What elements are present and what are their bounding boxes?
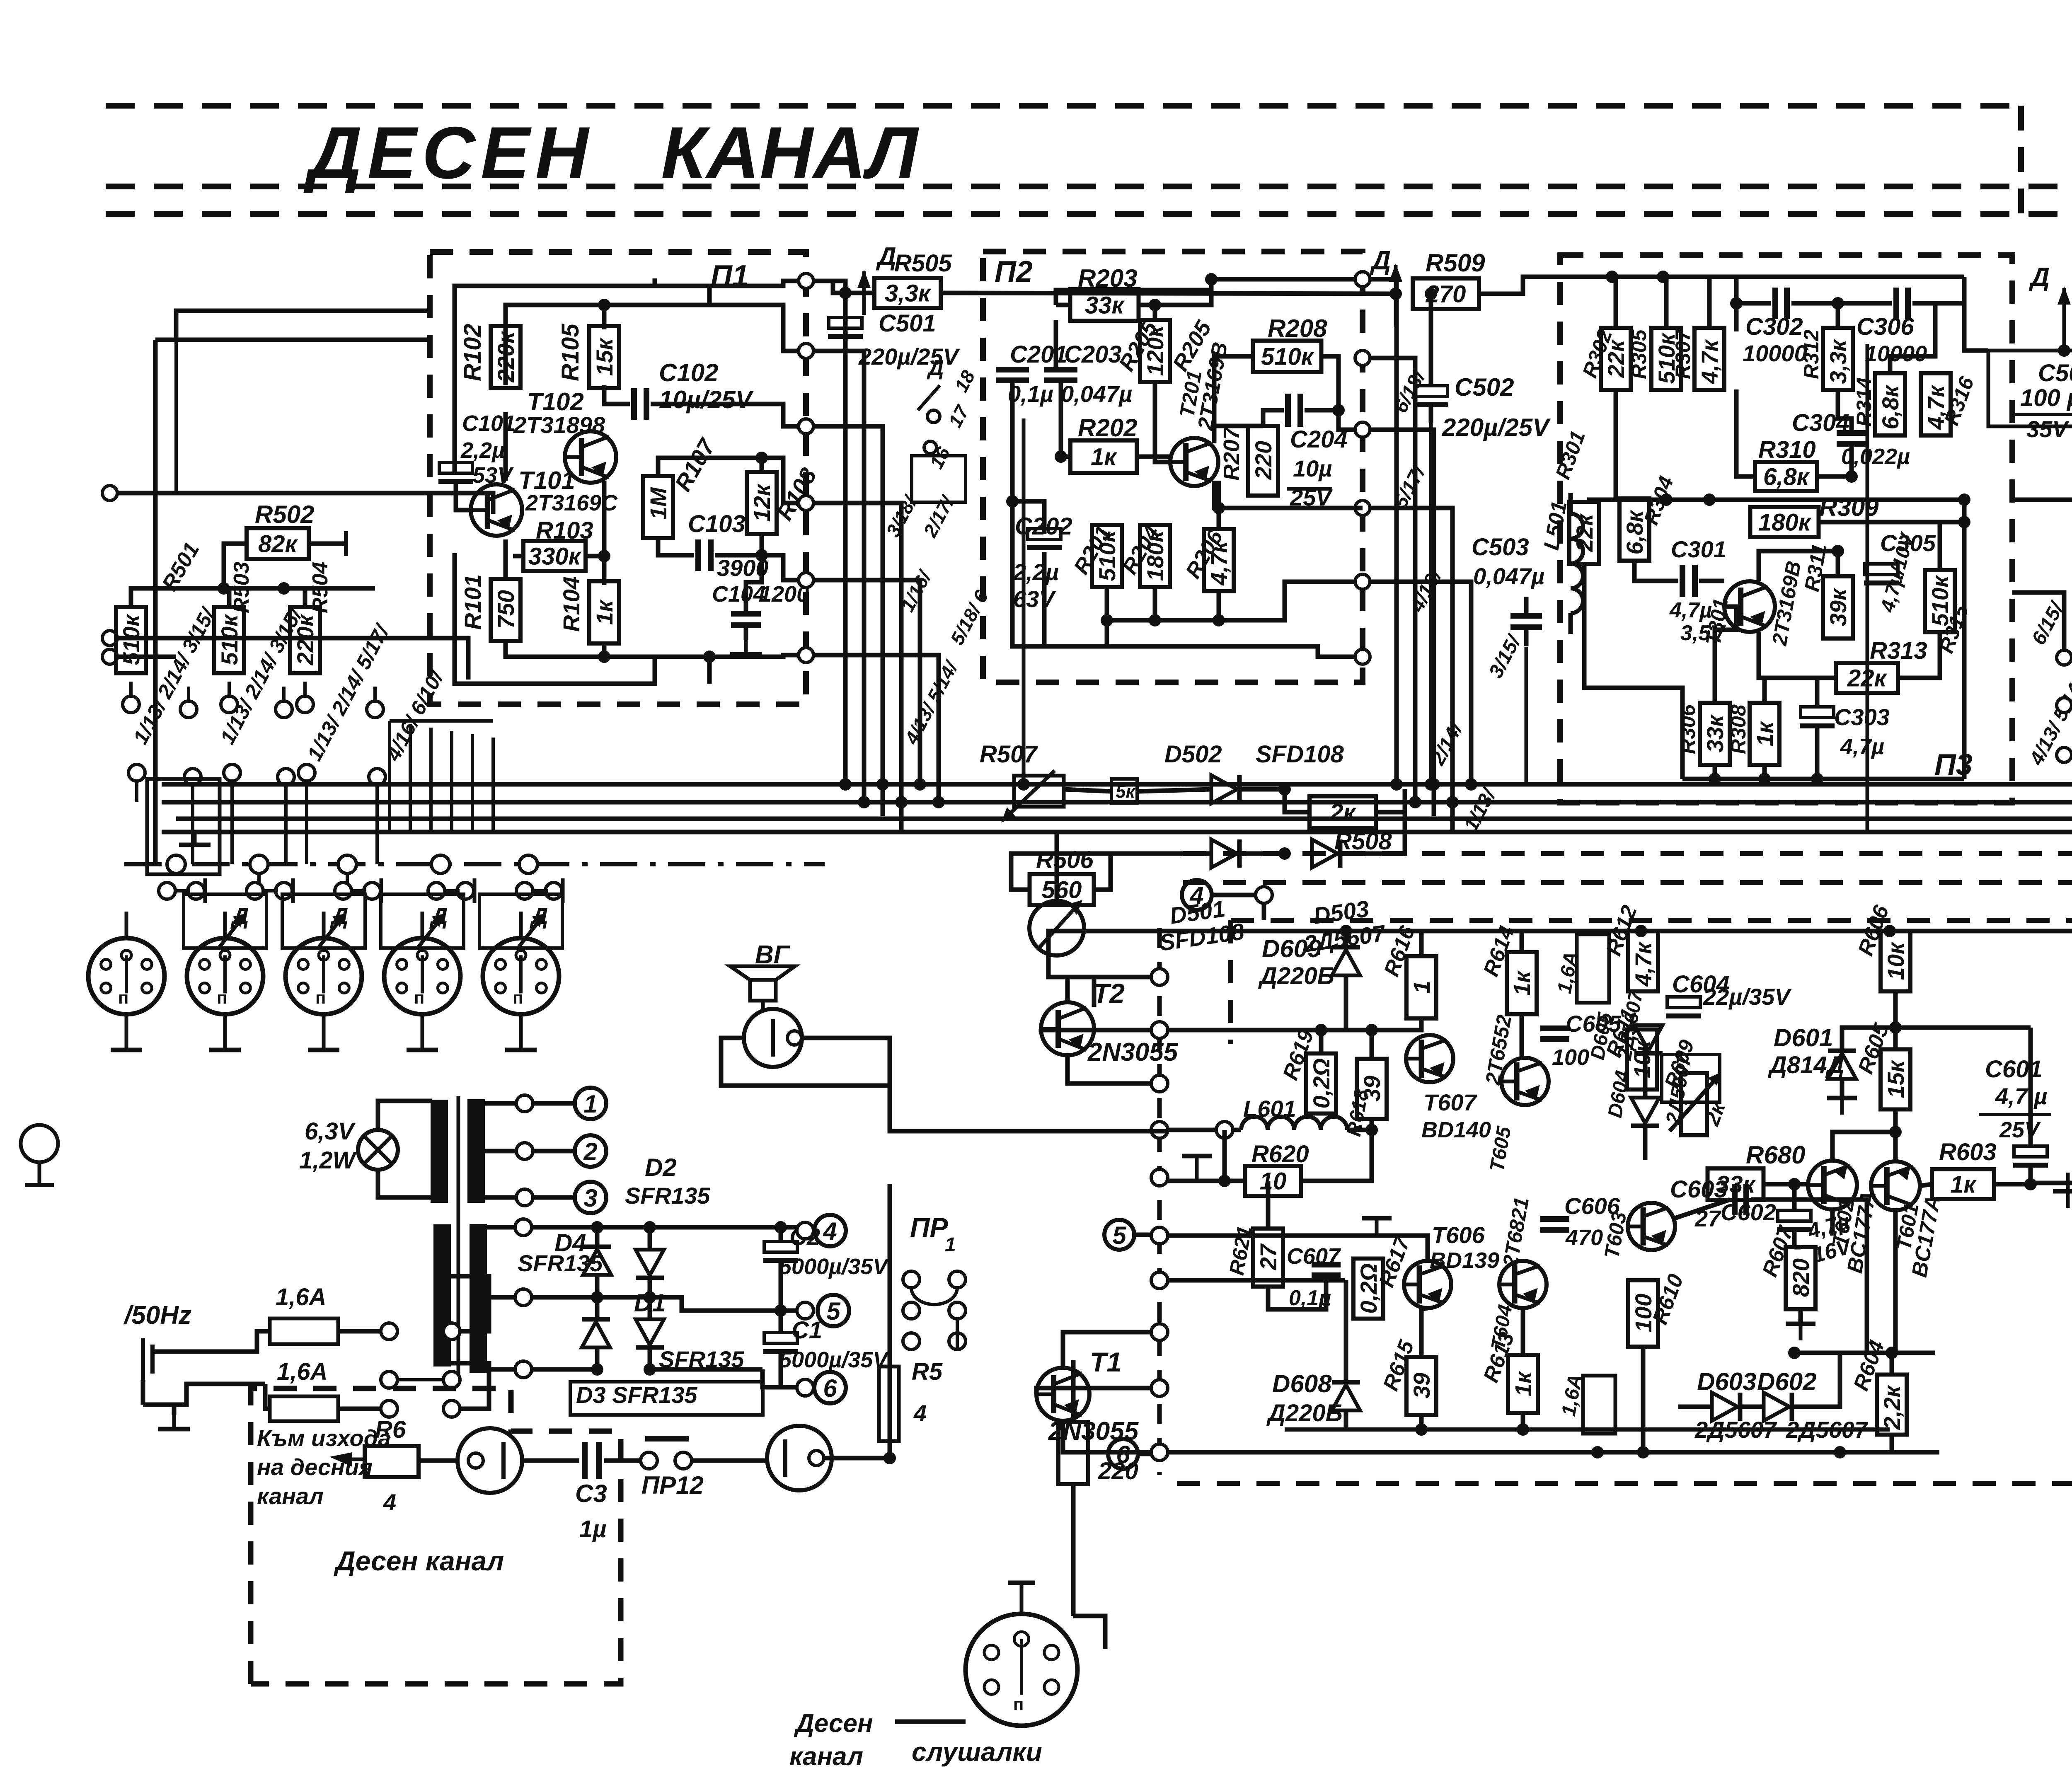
svg-text:ПР: ПР <box>910 1212 948 1243</box>
transformer core line <box>457 1096 460 1376</box>
wire T2 base <box>1041 1029 1151 1030</box>
resistor R621 27 <box>1253 1229 1283 1287</box>
svg-text:R503: R503 <box>230 562 254 613</box>
circled 6 terminal <box>1108 1439 1138 1469</box>
wire left vertical bus <box>155 338 430 342</box>
svg-text:R203: R203 <box>1078 264 1137 292</box>
resistor R612 4,7к <box>1628 931 1658 992</box>
fuse 1,6А upper <box>1577 934 1609 1003</box>
svg-text:D603: D603 <box>1697 1368 1756 1396</box>
DIN connector 2 <box>187 938 263 1014</box>
svg-text:15к: 15к <box>591 337 617 376</box>
wire left speaker feed <box>879 1102 883 1106</box>
resistor R208 510к <box>1253 341 1322 372</box>
svg-text:Д220Б: Д220Б <box>1258 963 1334 989</box>
svg-text:5000µ/35V: 5000µ/35V <box>779 1254 889 1279</box>
fuse 1,6А lower <box>1583 1376 1615 1434</box>
resistor R304 6,8к <box>1619 498 1649 561</box>
switch ПР12 <box>645 1436 689 1441</box>
svg-text:4,7к: 4,7к <box>1697 339 1723 385</box>
junction circles on selector line <box>167 855 185 873</box>
wire collectors to node <box>1832 1132 1895 1161</box>
svg-text:R506: R506 <box>1036 847 1094 873</box>
svg-text:4: 4 <box>1189 882 1203 909</box>
svg-text:4,7µ: 4,7µ <box>1840 734 1884 759</box>
wire П1 to right terminals <box>655 281 806 286</box>
svg-text:Т606: Т606 <box>1432 1222 1485 1248</box>
capacitor C2 5000µ/35V <box>764 1241 797 1252</box>
svg-text:1к: 1к <box>1509 970 1535 996</box>
DIN connector boxes <box>184 894 266 948</box>
svg-text:C301: C301 <box>1671 536 1726 562</box>
svg-text:С3: С3 <box>575 1480 607 1507</box>
svg-text:Д: Д <box>2028 262 2050 292</box>
ground mains <box>172 1415 176 1429</box>
capacitor C502 220µ/25V <box>1414 386 1447 397</box>
svg-text:39: 39 <box>1409 1373 1435 1398</box>
svg-text:D602: D602 <box>1757 1368 1816 1396</box>
selector contacts row 2 <box>128 764 145 781</box>
svg-text:5к: 5к <box>1116 781 1136 802</box>
svg-text:R307: R307 <box>1671 329 1694 379</box>
svg-text:C504: C504 <box>2038 360 2072 387</box>
svg-text:D601: D601 <box>1774 1024 1833 1052</box>
wire П1 left entry <box>176 311 220 340</box>
svg-text:R310: R310 <box>1758 436 1816 463</box>
wire long bus 3 <box>176 817 2072 821</box>
resistor R311 39к <box>1823 576 1853 639</box>
module П3 dashed box <box>1560 255 2012 803</box>
svg-text:R680: R680 <box>1746 1141 1805 1169</box>
transistor T201 2T3169В <box>1170 438 1218 486</box>
svg-text:1М: 1М <box>645 487 671 520</box>
transistor T607 BD140 <box>1406 1035 1453 1082</box>
svg-text:п: п <box>1013 1694 1024 1714</box>
resistor R301 22к <box>1569 502 1599 564</box>
wire C503 down <box>1525 647 1528 784</box>
resistor R102 220к <box>491 326 520 388</box>
svg-text:C104: C104 <box>712 582 765 607</box>
resistor R617 0,2Ω <box>1353 1259 1383 1319</box>
svg-text:1,6А: 1,6А <box>277 1358 328 1385</box>
svg-text:П2: П2 <box>995 255 1033 288</box>
svg-text:510к: 510к <box>216 614 242 665</box>
resistor 220 vertical <box>1058 1422 1088 1484</box>
ground C601 <box>2053 1189 2072 1194</box>
secondary taps to 1 2 3 <box>484 1101 517 1106</box>
resistor R207 220 <box>1248 426 1278 496</box>
svg-text:R508: R508 <box>1334 828 1392 855</box>
svg-text:0,2Ω: 0,2Ω <box>1356 1263 1382 1314</box>
capacitor C303 4,7µ <box>1801 707 1834 718</box>
DIN connector 3 <box>286 938 362 1014</box>
frame dashed top border <box>106 103 2018 109</box>
right-channel dashed box <box>251 1388 621 1684</box>
svg-text:2N3055: 2N3055 <box>1087 1038 1179 1067</box>
module П1 inner box <box>455 278 655 472</box>
module П1 dashed box <box>430 252 806 704</box>
svg-text:D3 SFR135: D3 SFR135 <box>576 1382 697 1408</box>
resistor R619 0,2Ω <box>1306 1054 1336 1114</box>
wire top left to П1 <box>220 309 430 313</box>
svg-text:1к: 1к <box>1091 443 1117 470</box>
svg-text:п: п <box>513 988 523 1007</box>
svg-text:п: п <box>315 988 326 1007</box>
svg-text:Т607: Т607 <box>1423 1089 1477 1115</box>
svg-text:5: 5 <box>826 1297 841 1325</box>
svg-text:D2: D2 <box>645 1154 677 1181</box>
svg-text:Д814Д: Д814Д <box>1767 1052 1844 1079</box>
wire bottom bus П3 <box>1682 777 1964 781</box>
selector column wires <box>191 785 194 864</box>
svg-text:12к: 12к <box>749 483 775 522</box>
svg-text:R101: R101 <box>460 574 486 630</box>
resistor R316 4,7к <box>1921 373 1951 435</box>
wire amp mid <box>1167 1236 1428 1261</box>
svg-text:R505: R505 <box>894 250 952 277</box>
resistor R508 2к <box>1310 796 1376 828</box>
svg-text:R313: R313 <box>1870 637 1927 664</box>
svg-text:0,1µ: 0,1µ <box>1008 381 1053 407</box>
resistor R504 220к <box>290 607 320 673</box>
wire jack to amp <box>801 1038 1167 1131</box>
wire П3 top bus <box>1612 275 1964 279</box>
svg-text:R6: R6 <box>375 1416 406 1443</box>
wire vertical drops П2 <box>1371 279 1397 784</box>
resistor R312 3,3к <box>1823 328 1853 390</box>
wire lamp loop <box>378 1101 432 1130</box>
dashed bus lower 2 <box>1183 880 2072 885</box>
resistor R615 39 <box>1406 1357 1436 1415</box>
transistor T605 <box>1501 1058 1549 1105</box>
svg-text:слушалки: слушалки <box>912 1737 1042 1767</box>
svg-text:2,2µ: 2,2µ <box>1013 559 1059 585</box>
svg-text:Д: Д <box>927 356 944 380</box>
svg-text:3,3к: 3,3к <box>1825 339 1851 384</box>
svg-text:35V: 35V <box>2026 416 2070 442</box>
svg-text:R202: R202 <box>1078 414 1137 442</box>
ground left <box>193 831 197 845</box>
svg-text:п: п <box>414 988 424 1007</box>
wire amp box left entries <box>983 1129 987 1134</box>
wire T102 emitter down <box>602 481 607 585</box>
resistor R101 750 <box>491 579 520 641</box>
svg-text:C302: C302 <box>1745 313 1803 340</box>
resistor R305 510к <box>1651 328 1681 390</box>
wire R107 R108 top <box>658 458 762 476</box>
svg-text:0,047µ: 0,047µ <box>1061 381 1132 407</box>
svg-text:C501: C501 <box>879 310 936 337</box>
capacitor C3 1µ <box>522 1458 579 1463</box>
capacitor C204 10µ/25V <box>1285 394 1291 427</box>
svg-text:4: 4 <box>383 1489 396 1515</box>
svg-text:22µ/35V: 22µ/35V <box>1703 984 1792 1010</box>
wire from trimmer <box>1055 832 1059 901</box>
svg-text:6: 6 <box>823 1374 837 1402</box>
svg-text:D608: D608 <box>1272 1370 1332 1398</box>
resistor R604 2,2к <box>1877 1375 1907 1435</box>
svg-text:R507: R507 <box>980 741 1038 768</box>
svg-text:C1: C1 <box>792 1317 822 1344</box>
svg-text:4: 4 <box>823 1217 837 1245</box>
resistor R205 120к <box>1140 320 1170 382</box>
resistor R204 180к <box>1140 525 1170 587</box>
svg-text:100: 100 <box>1552 1045 1589 1070</box>
resistor R105 15к <box>589 326 619 388</box>
svg-text:2T31898: 2T31898 <box>513 412 605 438</box>
svg-text:1,2W: 1,2W <box>299 1147 357 1174</box>
resistor R314 6,8к <box>1875 373 1905 435</box>
svg-text:КАНАЛ: КАНАЛ <box>661 111 920 194</box>
wire vertical x4506 <box>1866 344 1869 832</box>
capacitor C1 5000µ/35V <box>764 1333 797 1343</box>
wire R108 to edge <box>762 555 806 580</box>
svg-text:33к: 33к <box>1702 714 1728 752</box>
transistor T301 2T3169В <box>1724 581 1775 632</box>
resistor R616 1 <box>1406 956 1436 1018</box>
svg-text:15к: 15к <box>1883 1059 1909 1098</box>
svg-text:25V: 25V <box>1999 1117 2041 1142</box>
svg-text:1: 1 <box>1409 981 1435 994</box>
svg-text:C606: C606 <box>1564 1193 1620 1219</box>
svg-text:4: 4 <box>913 1400 927 1426</box>
terminal circled 4 <box>781 1225 798 1230</box>
resistor R308 1к <box>1750 703 1779 765</box>
wire weave horizontals <box>390 719 493 723</box>
resistor R108 12к <box>747 472 777 534</box>
svg-text:2,2к: 2,2к <box>1879 1385 1905 1430</box>
svg-text:510к: 510к <box>1261 343 1314 370</box>
wire down from jack <box>888 1038 892 1086</box>
transistor T101 2T3169C <box>471 484 522 536</box>
secondary taps lower <box>486 1225 516 1230</box>
svg-text:330к: 330к <box>528 543 582 570</box>
dashed bus lower 1 <box>1183 851 2072 856</box>
diode D1 SFR135 <box>636 1319 664 1345</box>
svg-text:/50Hz: /50Hz <box>123 1301 191 1330</box>
svg-text:R620: R620 <box>1251 1141 1309 1168</box>
circled 4 terminal <box>1182 880 1212 910</box>
diode D502 <box>1211 775 1237 803</box>
svg-text:R207: R207 <box>1219 426 1244 481</box>
wire П2 top bus <box>1056 279 1363 305</box>
diode D3 <box>582 1322 610 1347</box>
svg-text:T1: T1 <box>1090 1347 1122 1377</box>
resistor R614 1к <box>1507 952 1537 1014</box>
svg-text:2,2µ: 2,2µ <box>460 438 505 463</box>
svg-text:C603: C603 <box>1670 1176 1728 1203</box>
svg-text:33к: 33к <box>1085 292 1125 319</box>
svg-text:T102: T102 <box>527 388 584 416</box>
wire C501 down <box>1022 418 1026 784</box>
capacitor C501 220µ/25V <box>829 317 862 328</box>
resistor R605 15к <box>1881 1050 1910 1110</box>
svg-text:1к: 1к <box>1950 1171 1977 1198</box>
svg-text:BD139: BD139 <box>1430 1248 1499 1273</box>
wire T101 collector <box>503 412 508 481</box>
wire long bus 1 <box>162 782 2072 787</box>
svg-text:п: п <box>118 988 128 1007</box>
terminal circled 5 <box>781 1308 798 1313</box>
resistor R302 22к <box>1601 328 1631 390</box>
svg-text:R309: R309 <box>1819 493 1879 521</box>
switch symbols row <box>159 883 175 899</box>
wire T2 collector <box>1048 953 1094 1007</box>
capacitor C102 10µ/25V <box>604 385 630 404</box>
svg-text:D502: D502 <box>1164 741 1222 768</box>
svg-text:510к: 510к <box>118 614 144 665</box>
svg-text:6,8к: 6,8к <box>1877 385 1903 430</box>
svg-text:канал: канал <box>257 1483 324 1509</box>
wire T2 emitter <box>1067 1055 1151 1084</box>
wire headphone <box>1073 1616 1105 1649</box>
resistor R107 1М <box>643 476 673 538</box>
ground stub mid <box>1362 1216 1392 1221</box>
svg-text:D609: D609 <box>1262 935 1322 963</box>
resistor R306 33к <box>1700 703 1730 765</box>
svg-text:1: 1 <box>945 1234 956 1256</box>
DIN connector 5 <box>483 938 559 1014</box>
svg-text:22к: 22к <box>1571 513 1598 552</box>
resistor R5 4 <box>879 1367 899 1441</box>
svg-text:220: 220 <box>1250 441 1276 480</box>
svg-text:0,047µ: 0,047µ <box>1473 563 1544 589</box>
П2 right edge terminals <box>1355 272 1370 287</box>
svg-text:R504: R504 <box>308 562 332 613</box>
resistor R606 10к <box>1881 931 1910 992</box>
resistor R613 1к <box>1508 1355 1538 1413</box>
transistor T606 BD139 <box>1404 1261 1451 1308</box>
selector contacts row 1 <box>123 696 139 713</box>
svg-text:1к: 1к <box>1510 1371 1536 1396</box>
wire long bus 4 <box>162 830 2072 834</box>
svg-text:1: 1 <box>583 1090 597 1118</box>
svg-text:180к: 180к <box>1758 509 1812 536</box>
transistor T2 2N3055 <box>1041 1002 1094 1055</box>
svg-text:5: 5 <box>1112 1221 1127 1249</box>
svg-text:R502: R502 <box>255 501 314 528</box>
svg-text:BD140: BD140 <box>1421 1117 1491 1142</box>
svg-text:R314: R314 <box>1852 377 1876 427</box>
potentiometer R609 2к <box>1681 1073 1707 1135</box>
svg-text:T101: T101 <box>518 467 575 494</box>
svg-text:100 µ: 100 µ <box>2020 385 2072 411</box>
resistor R203 33к <box>1070 289 1139 321</box>
wire left input 3 <box>102 649 117 664</box>
svg-text:Д220Б: Д220Б <box>1266 1400 1343 1427</box>
resistor R502 82к <box>247 528 309 559</box>
svg-text:470: 470 <box>1565 1225 1603 1250</box>
wire C502 down <box>1429 423 1433 784</box>
svg-text:R603: R603 <box>1939 1139 1997 1166</box>
svg-text:820: 820 <box>1788 1258 1814 1297</box>
transistor T604 <box>1499 1261 1547 1308</box>
svg-text:C303: C303 <box>1834 704 1890 730</box>
module П2 dashed box <box>983 252 1363 682</box>
dash-dot selector line <box>124 862 825 866</box>
trimmer circle <box>1029 901 1084 955</box>
svg-text:SFR135: SFR135 <box>625 1183 710 1209</box>
DIN connector 4 <box>384 938 460 1014</box>
DIN connector 1 <box>88 938 165 1014</box>
svg-text:Десен: Десен <box>794 1709 873 1738</box>
resistor R509 270 <box>1413 278 1479 309</box>
output jack left <box>457 1428 522 1493</box>
wire R5 vertical <box>888 1184 892 1458</box>
resistor R309 180к <box>1750 507 1819 537</box>
resistor R310 6,8к <box>1755 462 1817 491</box>
svg-text:3: 3 <box>583 1184 597 1212</box>
wires R506 <box>1011 854 1094 890</box>
frame dashed line 2 <box>106 184 2072 189</box>
divider junction circles <box>1151 969 1168 985</box>
svg-text:ДЕСЕН: ДЕСЕН <box>303 111 590 194</box>
resistor R206 4,7к <box>1204 529 1234 591</box>
circled 5 terminal <box>1104 1220 1134 1250</box>
channel divider dashed <box>1157 928 1162 1475</box>
transistor T601 BC177A <box>1871 1161 1920 1210</box>
transformer secondary bar upper <box>469 1100 484 1202</box>
transistor T603 <box>1628 1203 1675 1250</box>
svg-text:1µ: 1µ <box>579 1516 607 1543</box>
svg-text:R104: R104 <box>558 576 584 632</box>
resistor R618 39 <box>1357 1059 1387 1119</box>
resistor R503 510к <box>214 607 244 673</box>
diode D503 2Д5607 <box>1312 839 1338 868</box>
frame dashed line 3 <box>106 211 2072 217</box>
capacitor C302 10000 <box>1772 288 1778 319</box>
svg-text:R305: R305 <box>1627 329 1651 379</box>
transistor T1 2N3055 <box>1036 1368 1089 1421</box>
svg-text:10000: 10000 <box>1865 341 1927 366</box>
svg-text:ПР12: ПР12 <box>641 1471 704 1499</box>
svg-text:T2: T2 <box>1093 978 1125 1009</box>
П1 right edge terminals <box>799 273 813 288</box>
svg-text:220к: 220к <box>493 331 519 382</box>
input jack box <box>147 779 220 874</box>
mains switch <box>381 1323 397 1340</box>
wire selector bus <box>193 586 375 591</box>
svg-text:C503: C503 <box>1472 534 1529 561</box>
wire top bus П1 <box>506 286 709 385</box>
svg-text:Д: Д <box>876 242 896 271</box>
svg-text:C201: C201 <box>1010 341 1067 368</box>
svg-text:10000: 10000 <box>1743 340 1807 366</box>
svg-text:6,3V: 6,3V <box>305 1118 356 1145</box>
svg-text:Десен канал: Десен канал <box>334 1545 504 1576</box>
resistor R610 100 <box>1628 1280 1658 1347</box>
amp dashed box bottom <box>1177 1481 2072 1486</box>
terminal circled 6 <box>781 1385 798 1390</box>
svg-text:2: 2 <box>583 1138 597 1166</box>
svg-text:R312: R312 <box>1800 329 1823 379</box>
svg-text:0,2Ω: 0,2Ω <box>1308 1058 1334 1109</box>
wire left input 2 <box>102 631 117 646</box>
resistor R307 4,7к <box>1694 328 1724 390</box>
transistor T102 2T31898 <box>565 431 616 483</box>
svg-text:п: п <box>217 988 227 1007</box>
wire long mid <box>2012 498 2072 502</box>
svg-text:2Д5607: 2Д5607 <box>1694 1417 1777 1443</box>
svg-text:5000µ/35V: 5000µ/35V <box>779 1347 889 1372</box>
svg-text:4,7к: 4,7к <box>1630 941 1656 987</box>
svg-text:C601: C601 <box>1985 1056 2043 1083</box>
output jack right <box>767 1426 832 1490</box>
resistor R501 510к <box>116 607 146 673</box>
bus junction dots <box>839 778 852 791</box>
svg-text:R105: R105 <box>557 324 584 381</box>
frame dashed corner right <box>2018 106 2024 215</box>
